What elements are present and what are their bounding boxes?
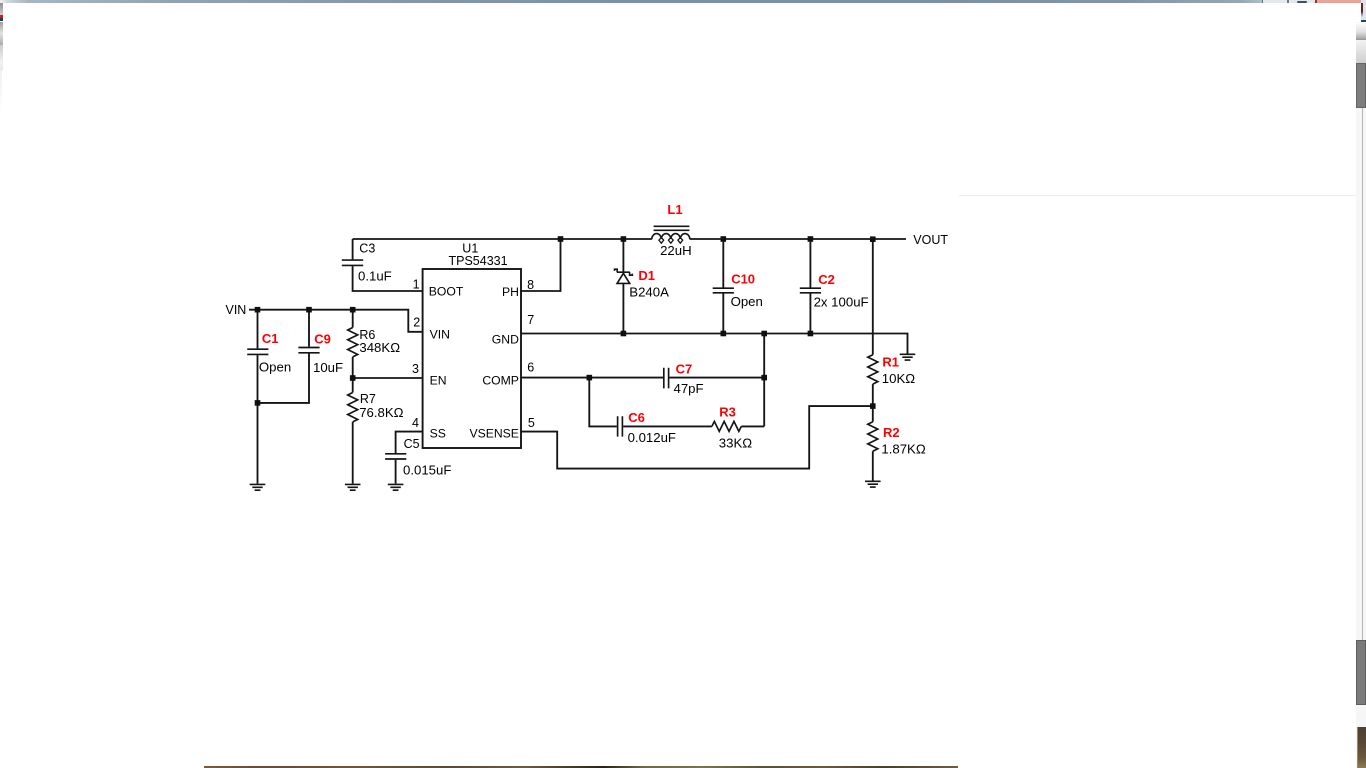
- svg-text:1: 1: [413, 277, 420, 291]
- junction on VOUT net at R1: [870, 236, 876, 242]
- svg-text:C7: C7: [676, 361, 693, 376]
- svg-text:Open: Open: [259, 359, 291, 374]
- inductor L1 winding bumps: [652, 234, 690, 240]
- junction on VIN net at C1: [255, 307, 261, 313]
- svg-text:R7: R7: [360, 392, 376, 406]
- resistor R1 zigzag body: [868, 355, 878, 384]
- capacitor C10 top lead wire: [722, 239, 724, 288]
- wire pin 4 SS to C5: [396, 432, 423, 453]
- desktop sliver bottom-right corner: [1357, 727, 1366, 768]
- svg-text:47pF: 47pF: [674, 381, 704, 396]
- ground symbol at C1: [250, 484, 266, 490]
- junction on VOUT net at C2: [808, 236, 814, 242]
- resistor R1 top lead wire from VOUT net: [872, 239, 874, 355]
- net GND: pin 7 wire across to ground symbol: [521, 334, 908, 354]
- svg-text:33KΩ: 33KΩ: [719, 435, 752, 450]
- svg-text:22uH: 22uH: [660, 243, 692, 258]
- capacitor C2 top lead wire: [809, 239, 811, 288]
- wire R7 bottom to ground: [352, 422, 354, 484]
- svg-text:5: 5: [528, 416, 535, 430]
- junction on GND net at compensation riser: [761, 331, 767, 337]
- resistor R3 zigzag body: [712, 421, 741, 431]
- junction on GND net at C10: [721, 331, 727, 337]
- svg-text:VSENSE: VSENSE: [469, 426, 518, 440]
- svg-text:76.8KΩ: 76.8KΩ: [359, 405, 403, 420]
- net COMP: pin 6 wire to C7: [521, 377, 663, 379]
- capacitor C9 top lead wire: [308, 310, 310, 347]
- svg-text:C2: C2: [818, 272, 835, 287]
- faint page divider line: [959, 195, 1359, 196]
- svg-text:R3: R3: [719, 405, 736, 420]
- junction on COMP net at C6 branch: [587, 375, 593, 381]
- net EN: wire from R6/R7 node to pin 3: [353, 377, 423, 379]
- wire pin 5 VSENSE feedback run: [521, 406, 873, 469]
- svg-text:C9: C9: [314, 331, 331, 346]
- svg-text:EN: EN: [430, 374, 447, 388]
- svg-text:Open: Open: [731, 294, 763, 309]
- svg-text:0.015uF: 0.015uF: [403, 463, 451, 478]
- capacitor C3 bottom lead wire to pin 1 BOOT: [353, 266, 423, 291]
- junction at C1/C9 bottom tie: [255, 400, 261, 406]
- junction on VIN net at C9: [306, 307, 312, 313]
- svg-text:C5: C5: [404, 437, 420, 451]
- wire compensation GND riser: [763, 334, 765, 427]
- ground symbol at GND net: [900, 354, 916, 360]
- capacitor C2 bottom lead wire to GND net: [809, 294, 811, 334]
- svg-text:R2: R2: [883, 425, 900, 440]
- svg-text:0.012uF: 0.012uF: [628, 430, 676, 445]
- capacitor C7 plates: [664, 368, 669, 389]
- capacitor C9 bottom lead wire joining C1 branch: [258, 354, 310, 403]
- resistor R6 zigzag body: [348, 328, 358, 357]
- svg-text:VIN: VIN: [430, 328, 450, 342]
- svg-text:7: 7: [527, 313, 534, 327]
- capacitor C9 plates: [298, 348, 319, 353]
- svg-text:1.87KΩ: 1.87KΩ: [881, 442, 925, 457]
- capacitor C1 plates: [247, 349, 268, 354]
- inductor L1 core bars: [654, 226, 690, 230]
- svg-text:VIN: VIN: [226, 303, 247, 317]
- capacitor C2 plates: [800, 288, 821, 293]
- svg-text:COMP: COMP: [482, 374, 519, 388]
- capacitor C5 bottom lead wire to ground: [395, 460, 397, 484]
- svg-text:C10: C10: [731, 272, 755, 287]
- wire R3 right lead to GND riser: [741, 425, 764, 427]
- diode D1 anode lead wire to GND net: [622, 284, 624, 334]
- svg-text:D1: D1: [638, 268, 655, 283]
- svg-text:PH: PH: [502, 285, 519, 299]
- svg-text:2x 100uF: 2x 100uF: [814, 295, 869, 310]
- svg-text:3: 3: [412, 362, 419, 376]
- resistor R2 zigzag body: [868, 422, 878, 451]
- svg-text:348KΩ: 348KΩ: [359, 340, 400, 355]
- svg-text:SS: SS: [430, 426, 446, 440]
- junction on GND net at C2: [808, 331, 814, 337]
- svg-text:10KΩ: 10KΩ: [882, 371, 915, 386]
- svg-text:0.1uF: 0.1uF: [358, 268, 392, 283]
- resistor R7 top lead wire: [352, 378, 354, 393]
- wire C7 right plate to GND riser: [669, 377, 764, 379]
- svg-text:2: 2: [413, 316, 420, 330]
- svg-text:C6: C6: [628, 410, 645, 425]
- wire COMP node down to C6: [589, 378, 617, 427]
- junction on PH net at D1: [621, 236, 627, 242]
- ground symbol at R2: [865, 481, 881, 487]
- junction on EN net at R6/R7: [350, 375, 356, 381]
- resistor R6 top lead wire: [352, 310, 354, 328]
- junction on GND net at D1: [621, 331, 627, 337]
- wire R6 bottom to EN node: [352, 357, 354, 378]
- wire R1 bottom to divider node: [872, 384, 874, 422]
- junction at R1/R2 divider VSENSE node: [870, 403, 876, 409]
- svg-text:C1: C1: [262, 331, 279, 346]
- junction on VIN net at R6: [350, 307, 356, 313]
- svg-text:GND: GND: [492, 333, 519, 347]
- capacitor C1 bottom lead wire to ground: [257, 355, 259, 484]
- inductor L1 winding loops: [659, 238, 683, 244]
- wire pin 8 PH riser: [521, 239, 561, 291]
- svg-text:4: 4: [412, 416, 419, 430]
- diode D1 schottky cathode bar: [615, 269, 633, 275]
- junction on VOUT net at C10: [721, 236, 727, 242]
- diode D1 cathode lead wire: [622, 239, 624, 272]
- svg-text:TPS54331: TPS54331: [449, 254, 508, 268]
- junction on PH net at pin 8 riser: [558, 236, 564, 242]
- ground symbol at C5: [388, 484, 404, 490]
- capacitor C6 plates: [618, 416, 623, 436]
- net VIN: horizontal wire from VIN label to pin 2 elbow: [249, 310, 423, 332]
- svg-text:B240A: B240A: [629, 284, 669, 299]
- window chrome: left edge sliver: [0, 3, 3, 16]
- svg-text:8: 8: [527, 278, 534, 292]
- capacitor C3 top lead wire from PH net: [352, 239, 354, 259]
- svg-text:C3: C3: [359, 242, 375, 256]
- ground symbol at R7: [345, 484, 361, 490]
- svg-text:L1: L1: [667, 202, 682, 217]
- svg-text:10uF: 10uF: [313, 360, 343, 375]
- resistor R7 zigzag body: [348, 393, 358, 422]
- svg-text:6: 6: [527, 360, 534, 374]
- op-amp U1 IC body box TPS54331: [423, 269, 521, 448]
- svg-text:VOUT: VOUT: [913, 233, 948, 247]
- svg-text:R1: R1: [882, 354, 899, 369]
- capacitor C10 plates: [713, 288, 734, 293]
- scrollbar column: [1356, 22, 1366, 768]
- window chrome: top gradient bar: [0, 0, 1262, 3]
- diode D1 triangle: [617, 273, 630, 283]
- wire C6 right plate to R3: [623, 425, 712, 427]
- taskbar sliver along bottom: [204, 766, 959, 768]
- net VOUT: top wire from L1 to VOUT label: [690, 238, 906, 240]
- capacitor C1 top lead wire: [257, 310, 259, 349]
- junction on COMP net at GND riser: [761, 375, 767, 381]
- capacitor C3 plates: [342, 260, 363, 265]
- net PH: top wire from C3 to inductor L1: [353, 238, 652, 240]
- capacitor C10 bottom lead wire to GND net: [722, 294, 724, 334]
- wire R2 bottom to ground: [872, 451, 874, 480]
- capacitor C5 plates: [385, 454, 406, 459]
- svg-text:BOOT: BOOT: [429, 284, 464, 298]
